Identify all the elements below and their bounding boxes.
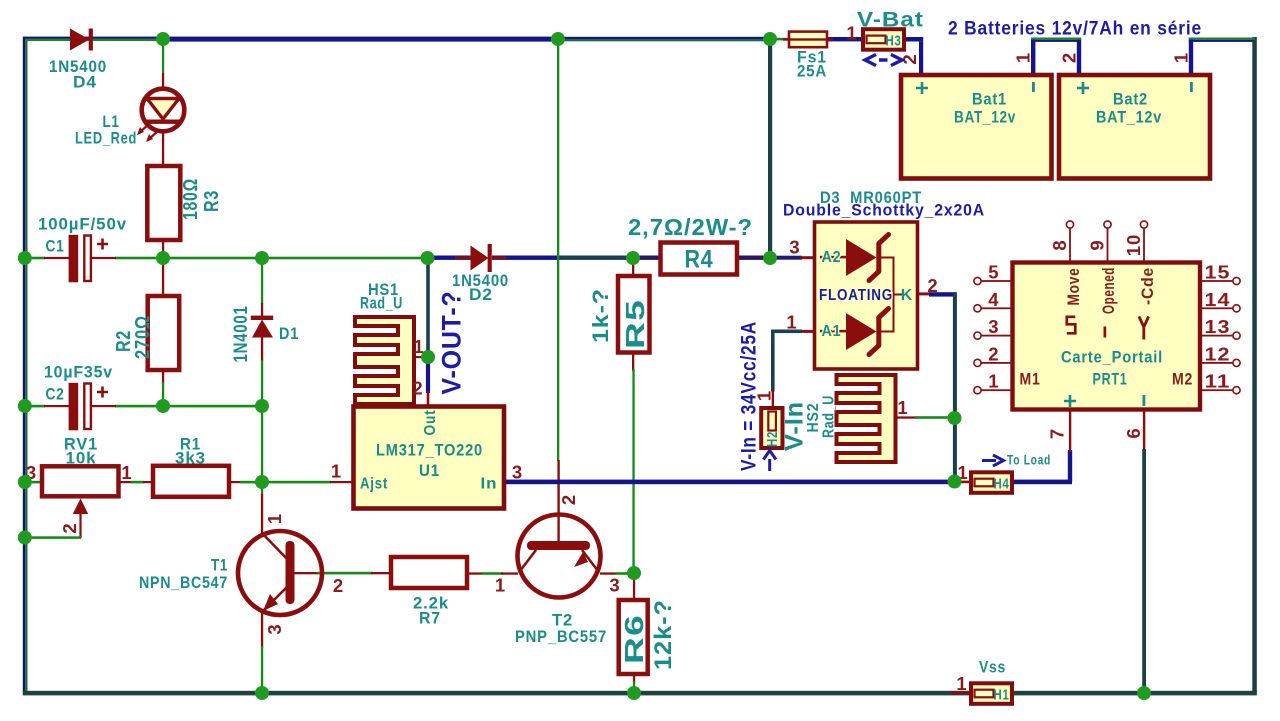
wire RV1 pin1 to R1 (119, 481, 154, 484)
svg-text:Bat2: Bat2 (1113, 90, 1148, 109)
svg-text:2,7Ω/2W-?: 2,7Ω/2W-? (628, 214, 753, 240)
wire bottom rail Vss (23, 691, 1257, 696)
svg-text:BAT_12v: BAT_12v (1096, 108, 1162, 127)
svg-text:Out: Out (422, 410, 439, 436)
svg-text:10: 10 (1123, 234, 1144, 256)
svg-text:T1: T1 (211, 556, 228, 575)
battery Bat1 BAT_12v (901, 52, 1080, 179)
wire T2 junction to R6 (633, 573, 635, 601)
svg-text:3: 3 (512, 462, 523, 483)
svg-text:1: 1 (495, 575, 506, 596)
svg-text:13: 13 (1205, 316, 1231, 337)
resistor R1 3k3 (153, 435, 229, 497)
svg-text:8: 8 (1049, 239, 1070, 250)
svg-text:FLOATING: FLOATING (819, 287, 893, 304)
wire R3 to C1 junction (162, 240, 164, 258)
svg-text:1: 1 (264, 513, 285, 524)
wire top rail green (558, 37, 789, 42)
wire top-left rail green+navy pair (23, 37, 163, 41)
svg-text:R4: R4 (685, 246, 714, 274)
svg-text:R5: R5 (620, 299, 650, 349)
svg-text:4: 4 (988, 289, 999, 310)
potentiometer RV1 10k (26, 435, 133, 534)
svg-text:V-In: V-In (781, 401, 809, 451)
wire D3 K pin to vertical (918, 292, 957, 296)
wire HS2 pin1 to K vertical (896, 416, 956, 419)
svg-text:10µF35v: 10µF35v (44, 363, 113, 382)
wire H3 to Bat1 navy (902, 37, 923, 75)
svg-text:100µF/50v: 100µF/50v (38, 215, 127, 234)
wire C1 row navy D2 segment (427, 256, 471, 260)
svg-text:D1: D1 (279, 324, 299, 343)
heatsink HS2 Rad_U (805, 375, 909, 462)
svg-text:7: 7 (1047, 428, 1068, 439)
svg-text:2: 2 (1059, 52, 1080, 63)
wire HS1 junction to U1 Out (426, 357, 430, 407)
svg-text:Ajst: Ajst (360, 476, 388, 493)
label D3 MR060PT (820, 188, 922, 207)
LED L1 LED_Red (75, 89, 184, 148)
resistor R4 2.7R 2W (628, 214, 753, 275)
wire T1 pin2 to R7 (294, 572, 391, 575)
svg-text:1: 1 (846, 23, 857, 44)
wire R5 bottom to T2 junction (632, 353, 635, 574)
svg-text:A2: A2 (822, 249, 842, 266)
arrow label below H2 (764, 451, 777, 472)
svg-text:1: 1 (786, 312, 797, 333)
svg-text:1: 1 (1171, 52, 1192, 63)
svg-text:Opened: Opened (1099, 267, 1118, 314)
connector PRT1 Carte_Portail (974, 221, 1240, 439)
svg-text:V-In = 34Vcc/25A: V-In = 34Vcc/25A (738, 321, 761, 471)
wire H4 pin stub (954, 481, 971, 484)
svg-text:NPN_BC547: NPN_BC547 (139, 573, 228, 592)
svg-text:Vss: Vss (979, 658, 1006, 677)
svg-text:11: 11 (1205, 371, 1231, 392)
svg-text:3: 3 (789, 237, 800, 258)
svg-text:Double_Schottky_2x20A: Double_Schottky_2x20A (783, 201, 985, 220)
label To Load (982, 453, 1051, 468)
resistor R5 1k (588, 276, 650, 353)
svg-text:D4: D4 (73, 73, 97, 92)
capacitor C1 100uF/50v (38, 215, 127, 283)
svg-text:1: 1 (897, 397, 908, 418)
double schottky D3 MR060PT (786, 222, 938, 369)
resistor R7 2.2k (391, 557, 467, 628)
wire LED to R3 (162, 132, 164, 166)
wire R6 to bottom rail (633, 674, 635, 693)
heatsink HS1 Rad_U (355, 280, 425, 404)
label Double_Schottky_2x20A (783, 201, 985, 220)
svg-text:Rad_U: Rad_U (360, 294, 403, 313)
wire R5 top stub (632, 258, 634, 278)
svg-text:1: 1 (956, 673, 967, 694)
svg-text:H4: H4 (994, 477, 1010, 493)
transistor T2 PNP_BC557 (495, 494, 621, 646)
wire R2 to C2 junction (162, 370, 164, 406)
svg-text:2: 2 (988, 343, 999, 364)
svg-text:H3: H3 (886, 34, 902, 50)
svg-text:3k3: 3k3 (175, 449, 206, 468)
svg-text:1k-?: 1k-? (588, 288, 613, 343)
svg-text:BAT_12v: BAT_12v (954, 108, 1016, 127)
svg-text:1: 1 (1013, 52, 1034, 63)
wire top rail down to T2 base (557, 39, 560, 542)
connector H4 To Load (957, 462, 1012, 493)
svg-text:6: 6 (1123, 427, 1144, 438)
svg-text:2 Batteries 12v/7Ah en série: 2 Batteries 12v/7Ah en série (948, 19, 1202, 40)
svg-text:D2: D2 (469, 285, 493, 304)
diode D4 1N5400 (49, 29, 107, 92)
wire C1 junction down to R2 (162, 258, 164, 296)
power label Vss (979, 658, 1006, 677)
wire R1 junction down to T1 collector (261, 482, 263, 534)
svg-text:PNP_BC557: PNP_BC557 (515, 627, 607, 646)
wire R7 to T2 pin1 (467, 572, 518, 575)
battery Bat2 BAT_12v (1059, 52, 1210, 179)
svg-text:180Ω: 180Ω (180, 178, 202, 220)
svg-text:-Cde: -Cde (1138, 267, 1157, 305)
svg-text:15: 15 (1205, 262, 1231, 283)
svg-text:H2: H2 (765, 431, 781, 447)
svg-text:2: 2 (333, 575, 344, 596)
svg-text:K: K (901, 287, 913, 304)
wire T1 emitter to bottom rail (261, 613, 263, 693)
resistor R3 180R (147, 166, 223, 240)
capacitor C2 10uF35v (44, 363, 113, 431)
wire D3 A1 to H2 (771, 330, 815, 410)
svg-text:3: 3 (609, 575, 620, 596)
wire D2 to R5 junction dark (492, 256, 633, 260)
svg-text:1: 1 (331, 461, 342, 482)
svg-text:25A: 25A (797, 62, 827, 81)
diode D2 1N5400 (452, 244, 509, 304)
svg-text:2: 2 (59, 522, 80, 533)
svg-text:5: 5 (988, 262, 999, 283)
wire T2 pin3 to junction (600, 572, 634, 575)
connector H1 Vss (956, 673, 1012, 704)
svg-text:9: 9 (1087, 239, 1108, 250)
wire PRT1 pin6 to bottom rail (1142, 409, 1146, 693)
diode D1 1N4001 (231, 306, 299, 363)
svg-text:1: 1 (121, 462, 132, 483)
net label V-In = 34Vcc/25A (738, 321, 761, 471)
wire C1 row green (25, 257, 427, 260)
svg-text:C2: C2 (46, 385, 65, 404)
power label V-In (781, 401, 809, 451)
svg-text:1: 1 (988, 371, 999, 392)
label arrow under H3 (865, 55, 902, 66)
wire R1 to junction to U1 Ajst (229, 481, 354, 484)
svg-text:3: 3 (264, 623, 285, 634)
svg-text:V-Bat: V-Bat (857, 9, 924, 32)
wire RV1 wiper to border (25, 514, 82, 539)
wire D4 junction down to LED (162, 39, 164, 89)
svg-text:A1: A1 (822, 323, 842, 340)
fuse Fs1 25A (783, 32, 833, 81)
svg-text:2: 2 (412, 378, 423, 399)
svg-text:Carte_Portail: Carte_Portail (1061, 349, 1163, 367)
svg-text:270Ω: 270Ω (132, 315, 154, 359)
wire left border vertical (23, 37, 28, 694)
svg-text:R3: R3 (201, 190, 223, 212)
wire V-In rail U1 In to H4 junction navy (504, 480, 954, 485)
svg-text:12k-?: 12k-? (650, 599, 677, 670)
svg-text:LM317_TO220: LM317_TO220 (376, 442, 483, 460)
svg-text:M1: M1 (1020, 370, 1041, 389)
wire Bat2 minus to right border link (1189, 38, 1255, 76)
svg-text:12: 12 (1205, 343, 1231, 364)
wire right border vertical (1252, 37, 1257, 693)
svg-text:To Load: To Load (1007, 453, 1051, 468)
wire C2 row green (25, 405, 262, 408)
svg-text:10k: 10k (66, 449, 97, 468)
svg-text:M2: M2 (1172, 370, 1193, 389)
svg-text:PRT1: PRT1 (1093, 371, 1128, 389)
note 2 Batteries 12v/7Ah en serie (948, 19, 1202, 40)
svg-text:1N4001: 1N4001 (231, 306, 252, 363)
wire junction to D3 pin3 (770, 256, 815, 260)
svg-text:U1: U1 (419, 462, 440, 480)
transistor T1 NPN_BC547 (139, 513, 344, 635)
wire K vertical down to V-In junction (953, 292, 957, 481)
resistor R6 12k (619, 599, 677, 674)
svg-text:2: 2 (927, 275, 938, 296)
wire H4 to PRT1 pin7 (1012, 409, 1072, 484)
wire D1 to C2 junction (261, 337, 263, 406)
wire C1 junction to D1 (261, 258, 263, 317)
power label V-Bat (857, 9, 924, 32)
svg-text:Rad_U: Rad_U (821, 395, 838, 438)
svg-text:C1: C1 (46, 237, 65, 256)
regulator U1 LM317_TO220 (331, 407, 523, 509)
svg-text:3: 3 (988, 316, 999, 337)
wire C2 junction to R1 junction (261, 406, 263, 482)
svg-text:Bat1: Bat1 (972, 90, 1007, 109)
wire V-Bat vertical fuse junction down to R4 row (768, 39, 772, 258)
svg-text:H1: H1 (994, 688, 1010, 704)
connector H2 V-In (754, 390, 783, 448)
wire R5 junction to R4 violet (633, 256, 661, 260)
resistor R2 270R (113, 296, 179, 370)
wire fuse to H3 navy (827, 37, 863, 41)
svg-text:Move: Move (1064, 268, 1083, 306)
net label V-OUT-? (437, 291, 467, 395)
wire border to RV1 pin3 (25, 481, 42, 484)
svg-text:14: 14 (1205, 289, 1231, 310)
wire R4 to D3 junction violet (737, 256, 770, 260)
svg-text:R6: R6 (619, 614, 649, 664)
svg-text:LED_Red: LED_Red (75, 129, 137, 148)
wire HS1 pin1 stub (412, 356, 426, 358)
wire H1 pin stub (950, 692, 971, 695)
svg-text:R7: R7 (419, 609, 441, 628)
wire Bat1 minus to Bat2 plus link (1031, 38, 1081, 76)
connector H3 V-Bat (846, 23, 920, 65)
wire V-OUT net C1row to HS1 junction (426, 258, 430, 357)
svg-text:2: 2 (558, 494, 579, 505)
wire top rail navy thick (163, 37, 558, 42)
svg-text:In: In (481, 476, 498, 493)
svg-text:V-OUT-?: V-OUT-? (437, 291, 467, 395)
